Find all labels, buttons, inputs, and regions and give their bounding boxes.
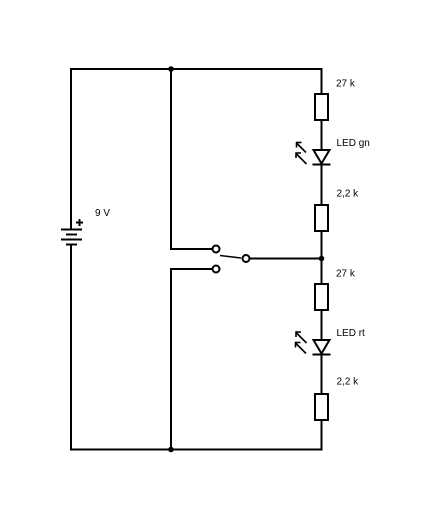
- wire left bottom (battery - down): [70, 245, 72, 451]
- wire bottom rail: [70, 449, 323, 451]
- resistor R2 2,2k: [315, 205, 328, 231]
- LED gn arrow 2: [296, 153, 307, 165]
- node top junction: [168, 66, 174, 72]
- resistor R3 27k: [315, 284, 328, 310]
- switch S1 lever: [220, 256, 241, 259]
- wire pole to mid node: [250, 258, 322, 260]
- svg-text:2,2 k: 2,2 k: [337, 189, 360, 200]
- resistor R1 27k: [315, 94, 328, 120]
- node bottom junction: [168, 447, 174, 453]
- wire R1 to LED gn: [321, 120, 323, 150]
- svg-text:2,2 k: 2,2 k: [337, 377, 360, 388]
- LED rt cathode bar: [313, 354, 331, 356]
- battery B1 9V: [61, 219, 83, 245]
- wire right branch top: [321, 68, 323, 94]
- wire R2 to mid node to R3: [321, 230, 323, 285]
- wire R3 to LED rt: [321, 310, 323, 340]
- wire R4 to bottom rail: [321, 420, 323, 450]
- wire switch top feed: [170, 248, 212, 250]
- LED rt arrow 2: [295, 342, 306, 354]
- switch S1 bottom throw contact: [213, 266, 220, 273]
- wire left (battery + up): [70, 68, 72, 229]
- LED gn triangle: [314, 150, 330, 164]
- svg-text:LED rt: LED rt: [337, 328, 366, 339]
- LED gn arrow 1: [296, 142, 306, 153]
- LED rt triangle: [314, 340, 330, 354]
- LED gn cathode bar: [313, 164, 331, 166]
- wire switch bottom feed: [170, 268, 212, 270]
- svg-text:LED gn: LED gn: [337, 138, 370, 149]
- wire middle vertical upper (top junction to switch top contact): [170, 69, 172, 250]
- switch S1 pole contact: [243, 255, 250, 262]
- svg-text:27 k: 27 k: [336, 269, 356, 280]
- switch S1 top throw contact: [213, 246, 220, 253]
- LED rt arrow 1: [296, 332, 307, 344]
- wire top rail (battery + to right branch): [70, 68, 323, 70]
- wire LED rt to R4: [321, 354, 323, 395]
- node mid junction: [319, 256, 325, 262]
- svg-text:9 V: 9 V: [95, 208, 110, 219]
- wire middle vertical lower (switch bottom contact to bottom rail): [170, 268, 172, 450]
- switch S1: [213, 246, 250, 273]
- LED gn D1: [296, 142, 331, 165]
- LED rt D2: [295, 332, 331, 355]
- wire LED gn to R2: [321, 164, 323, 205]
- svg-text:27 k: 27 k: [336, 79, 356, 90]
- resistor R4 2,2k: [315, 394, 328, 420]
